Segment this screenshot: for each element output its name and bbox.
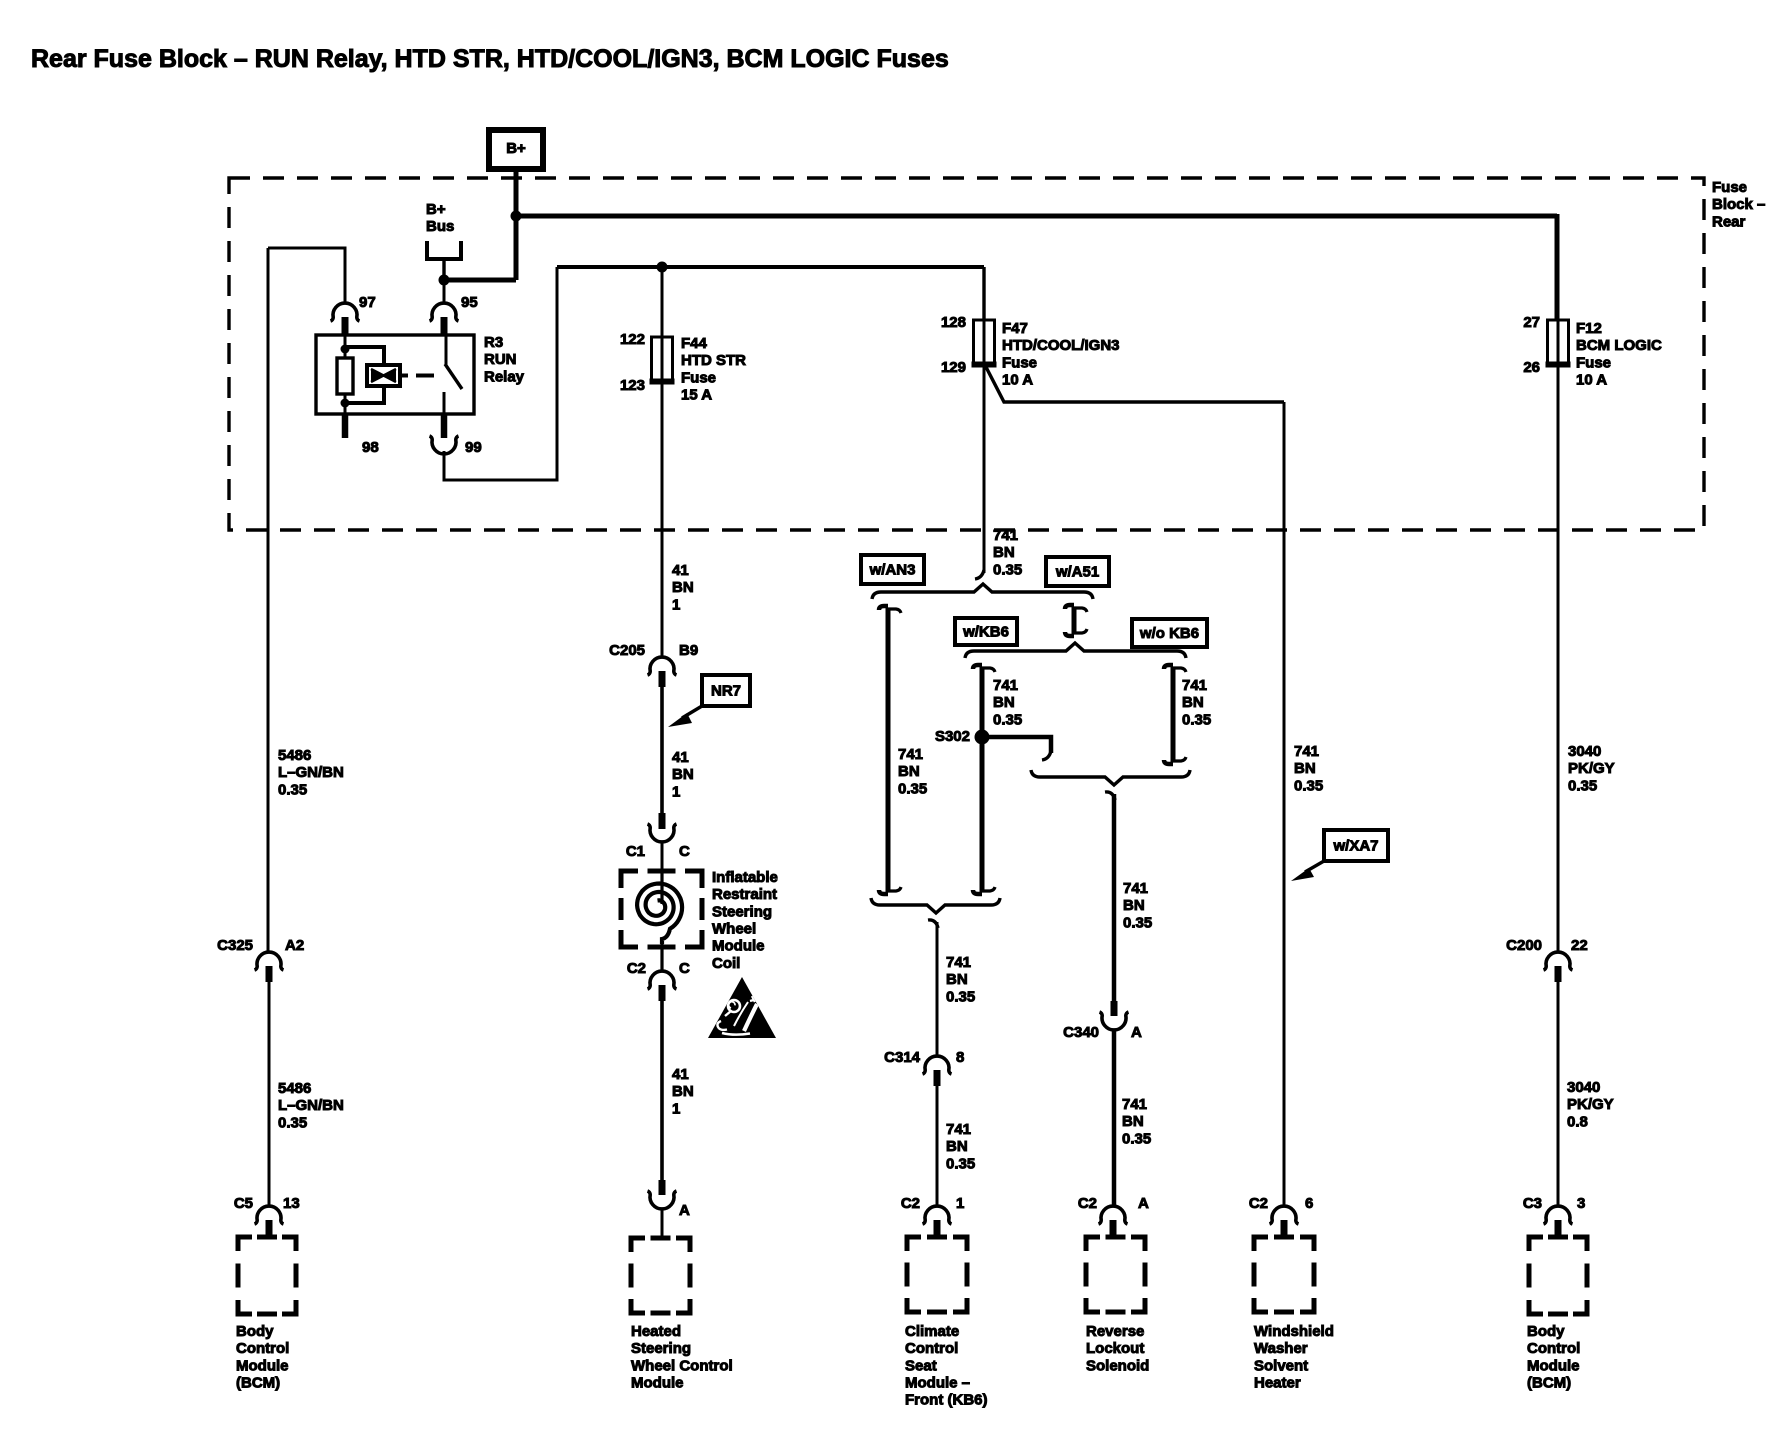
wire 741 from F47: [975, 366, 984, 579]
svg-text:BCM LOGIC: BCM LOGIC: [1576, 337, 1662, 354]
connector C314: [923, 1056, 952, 1086]
svg-text:Control: Control: [1527, 1340, 1580, 1357]
wire C1 to coil: [661, 841, 664, 871]
connector C340 labels: [1063, 1024, 1142, 1041]
relay pin 98 stub: [342, 414, 349, 438]
svg-text:Bus: Bus: [426, 218, 454, 235]
svg-text:BN: BN: [672, 766, 694, 783]
node bus junction: [439, 275, 450, 286]
svg-text:0.35: 0.35: [898, 780, 927, 797]
relay coil wire: [344, 335, 347, 414]
relay coil loop: [345, 347, 384, 403]
branch w/AN3: [879, 606, 901, 894]
wire F44 tap down: [661, 267, 664, 337]
svg-text:A: A: [679, 1202, 690, 1219]
connector A label: [679, 1202, 690, 1219]
svg-text:C5: C5: [234, 1195, 253, 1212]
svg-text:0.35: 0.35: [1568, 777, 1597, 794]
svg-text:Steering: Steering: [631, 1340, 691, 1357]
svg-text:Restraint: Restraint: [712, 886, 777, 903]
fuse F47: [972, 320, 997, 366]
pin 97 label: [359, 294, 376, 311]
svg-text:Relay: Relay: [484, 368, 525, 385]
svg-text:0.35: 0.35: [1122, 1130, 1151, 1147]
svg-text:B+: B+: [506, 140, 526, 157]
svg-text:Wheel: Wheel: [712, 921, 756, 938]
svg-text:C340: C340: [1063, 1024, 1099, 1041]
heated steering wheel module box: [631, 1238, 690, 1313]
svg-text:741: 741: [993, 527, 1018, 544]
svg-text:10 A: 10 A: [1002, 372, 1033, 389]
svg-text:1: 1: [672, 783, 680, 800]
svg-text:Solvent: Solvent: [1254, 1357, 1308, 1374]
svg-text:97: 97: [359, 294, 376, 311]
relay coil resistor: [337, 358, 353, 394]
wire 3040 lower label: [1567, 1079, 1614, 1130]
connector C1: [648, 813, 677, 842]
link w/A51: [1065, 605, 1087, 636]
node B+ junction: [511, 211, 522, 222]
pin 98 label: [362, 439, 379, 456]
svg-text:Module: Module: [712, 938, 765, 955]
svg-text:Steering: Steering: [712, 903, 772, 920]
wire 41 lower label: [672, 1066, 694, 1117]
svg-text:w/KB6: w/KB6: [962, 623, 1009, 640]
svg-text:741: 741: [898, 746, 923, 763]
svg-text:B+: B+: [426, 201, 446, 218]
svg-text:S302: S302: [935, 728, 970, 745]
node F44 tap: [657, 262, 668, 273]
svg-text:41: 41: [672, 749, 689, 766]
svg-text:1: 1: [956, 1195, 964, 1212]
svg-text:27: 27: [1523, 314, 1540, 331]
svg-text:HTD STR: HTD STR: [681, 352, 746, 369]
svg-text:A2: A2: [285, 937, 304, 954]
wire B+ main run: [516, 214, 1557, 219]
svg-text:Body: Body: [1527, 1323, 1565, 1340]
svg-text:C200: C200: [1506, 937, 1542, 954]
wire fuse feed run: [557, 265, 984, 269]
wire 5486 upper: [267, 248, 270, 952]
svg-text:0.35: 0.35: [278, 781, 307, 798]
svg-text:C1: C1: [626, 843, 645, 860]
pin 95 label: [461, 294, 478, 311]
wire F47 diagonal: [986, 367, 1284, 402]
svg-text:3: 3: [1577, 1195, 1585, 1212]
inflatable restraint coil box: [621, 871, 702, 947]
svg-text:BN: BN: [1122, 1113, 1144, 1130]
svg-text:BN: BN: [946, 971, 968, 988]
wire relay 99 to fuse feed: [444, 267, 557, 480]
svg-text:w/XA7: w/XA7: [1332, 837, 1378, 854]
svg-text:Fuse: Fuse: [1712, 179, 1747, 196]
svg-text:Inflatable: Inflatable: [712, 869, 778, 886]
wire 741 AN3 label: [898, 746, 927, 797]
relay dashed actuator link: [416, 374, 434, 378]
inflatable restraint coil label: [712, 869, 778, 972]
svg-text:128: 128: [941, 314, 966, 331]
svg-text:Rear: Rear: [1712, 213, 1746, 230]
connector C2 reverse: [1099, 1206, 1128, 1235]
svg-text:41: 41: [672, 1066, 689, 1083]
pin 26 label: [1523, 359, 1540, 376]
climate control seat module box: [907, 1237, 967, 1312]
svg-text:BN: BN: [1294, 760, 1316, 777]
pin 123 label: [620, 377, 645, 394]
fuse block rear label: [1712, 179, 1765, 230]
relay switch contact: [445, 335, 448, 365]
connector C5 labels: [234, 1195, 300, 1212]
splice S302 label: [935, 728, 970, 745]
wire 741 to climate: [928, 920, 938, 1057]
svg-text:0.8: 0.8: [1567, 1113, 1588, 1130]
svg-text:L–GN/BN: L–GN/BN: [278, 1097, 344, 1114]
svg-text:15 A: 15 A: [681, 387, 712, 404]
svg-text:w/o KB6: w/o KB6: [1139, 625, 1199, 642]
connector C2 climate: [923, 1206, 952, 1235]
relay R3 label: [484, 334, 525, 385]
svg-text:Lockout: Lockout: [1086, 1340, 1144, 1357]
svg-text:5486: 5486: [278, 747, 311, 764]
svg-text:PK/GY: PK/GY: [1568, 760, 1615, 777]
reverse lockout solenoid label: [1086, 1323, 1149, 1374]
option box w/AN3: [861, 555, 924, 584]
svg-text:0.35: 0.35: [1123, 914, 1152, 931]
svg-text:741: 741: [946, 1121, 971, 1138]
wire B+ run to F12: [1555, 214, 1560, 321]
svg-text:129: 129: [941, 359, 966, 376]
wire 741 windshield: [1283, 402, 1286, 1207]
climate control seat module label: [905, 1323, 988, 1409]
wire 41 lower: [660, 1001, 664, 1180]
svg-text:BN: BN: [946, 1138, 968, 1155]
body control module left box: [238, 1237, 296, 1314]
branch w/KB6: [973, 665, 995, 894]
svg-text:123: 123: [620, 377, 645, 394]
svg-text:122: 122: [620, 331, 645, 348]
svg-text:C2: C2: [1249, 1195, 1268, 1212]
svg-text:Fuse: Fuse: [1576, 354, 1611, 371]
svg-text:L–GN/BN: L–GN/BN: [278, 764, 344, 781]
wire bus to relay 95: [443, 280, 446, 304]
branch w/o KB6: [1164, 665, 1186, 764]
svg-text:C2: C2: [627, 960, 646, 977]
connector C325: [255, 952, 284, 982]
svg-text:F47: F47: [1002, 320, 1028, 337]
svg-text:BN: BN: [993, 694, 1015, 711]
pin 129 label: [941, 359, 966, 376]
svg-text:Body: Body: [236, 1323, 274, 1340]
svg-text:F44: F44: [681, 335, 708, 352]
svg-text:C3: C3: [1523, 1195, 1542, 1212]
connector C340: [1100, 1001, 1129, 1030]
svg-text:C: C: [679, 843, 690, 860]
svg-text:A: A: [1138, 1195, 1149, 1212]
connector C200: [1544, 952, 1573, 982]
svg-text:BN: BN: [672, 579, 694, 596]
body control module left label: [236, 1323, 289, 1392]
wire A to module: [661, 1208, 664, 1238]
B+ power feed box: [489, 130, 543, 169]
svg-text:741: 741: [1294, 743, 1319, 760]
connector C3 labels: [1523, 1195, 1586, 1212]
svg-text:C205: C205: [609, 642, 645, 659]
svg-text:Module: Module: [236, 1357, 289, 1374]
svg-text:BN: BN: [672, 1083, 694, 1100]
svg-text:Windshield: Windshield: [1254, 1323, 1334, 1340]
svg-text:B9: B9: [679, 642, 698, 659]
svg-text:41: 41: [672, 562, 689, 579]
wire 741 climate upper label: [946, 954, 975, 1005]
NR7 option box: [702, 675, 750, 706]
pin 99 label: [465, 439, 482, 456]
relay pin 97 connector: [331, 303, 360, 335]
fuse F12: [1546, 320, 1571, 366]
wire 741 climate lower: [936, 1086, 939, 1207]
pin 27 label: [1523, 314, 1540, 331]
body control module right box: [1529, 1237, 1587, 1314]
wire 741 to reverse: [1105, 792, 1115, 1001]
svg-text:1: 1: [672, 1100, 680, 1117]
svg-text:R3: R3: [484, 334, 503, 351]
wire S302 tap: [989, 737, 1051, 760]
option box w/A51: [1046, 557, 1109, 586]
svg-text:Seat: Seat: [905, 1357, 937, 1374]
wire junction link: [444, 278, 516, 283]
wire 3040 lower: [1557, 982, 1560, 1207]
svg-text:Heater: Heater: [1254, 1375, 1301, 1392]
svg-text:A: A: [1131, 1024, 1142, 1041]
svg-text:8: 8: [956, 1049, 964, 1066]
inflatable restraint coil spiral: [637, 871, 682, 971]
connector C2 climate labels: [901, 1195, 965, 1212]
B+ Bus symbol: [426, 201, 461, 259]
svg-text:0.35: 0.35: [993, 561, 1022, 578]
svg-text:PK/GY: PK/GY: [1567, 1096, 1614, 1113]
svg-text:BN: BN: [993, 544, 1015, 561]
relay node coil top: [341, 345, 350, 354]
svg-text:C325: C325: [217, 937, 253, 954]
connector C205 labels: [609, 642, 698, 659]
wire 741 windshield label: [1294, 743, 1323, 794]
wire 41 upper label: [672, 562, 694, 613]
windshield washer solvent heater box: [1254, 1237, 1314, 1312]
svg-text:Washer: Washer: [1254, 1340, 1308, 1357]
NR7 arrow: [668, 706, 702, 727]
wire 5486 upper label: [278, 747, 344, 798]
relay coil link: [400, 374, 408, 378]
svg-text:F12: F12: [1576, 320, 1602, 337]
connector C3: [1544, 1206, 1573, 1235]
svg-text:w/A51: w/A51: [1055, 563, 1099, 580]
svg-text:Control: Control: [236, 1340, 289, 1357]
svg-text:Wheel Control: Wheel Control: [631, 1357, 733, 1374]
fuse F44: [650, 337, 675, 383]
svg-text:Control: Control: [905, 1340, 958, 1357]
svg-text:0.35: 0.35: [1182, 711, 1211, 728]
svg-text:NR7: NR7: [711, 682, 741, 699]
w/XA7 arrow: [1291, 861, 1324, 881]
svg-text:6: 6: [1305, 1195, 1313, 1212]
sir warning triangle: [708, 977, 776, 1038]
svg-text:741: 741: [993, 677, 1018, 694]
relay node coil bottom: [341, 399, 350, 408]
svg-text:Fuse: Fuse: [681, 369, 716, 386]
wire 41 fuse to C205: [661, 383, 664, 658]
svg-text:10 A: 10 A: [1576, 372, 1607, 389]
connector C2 reverse labels: [1078, 1195, 1149, 1212]
wire B+ down: [514, 169, 519, 280]
svg-text:w/AN3: w/AN3: [869, 561, 916, 578]
relay switch lower wire: [443, 392, 446, 414]
svg-text:0.35: 0.35: [993, 711, 1022, 728]
svg-text:Heated: Heated: [631, 1323, 681, 1340]
svg-text:95: 95: [461, 294, 478, 311]
svg-text:Reverse: Reverse: [1086, 1323, 1144, 1340]
merge brace reverse: [1031, 770, 1190, 785]
wire 741 w/o KB6 label: [1182, 677, 1211, 728]
windshield washer solvent heater label: [1254, 1323, 1334, 1392]
svg-text:741: 741: [946, 954, 971, 971]
connector C325 labels: [217, 937, 304, 954]
wire 41 mid: [660, 687, 664, 813]
wire 741 KB6 label: [993, 677, 1022, 728]
connector C2 windshield labels: [1249, 1195, 1314, 1212]
connector A heated: [648, 1180, 677, 1209]
relay R3 box: [316, 335, 474, 414]
pin 128 label: [941, 314, 966, 331]
wire 741 reverse lower: [1112, 1029, 1117, 1207]
splice S302: [975, 730, 990, 745]
relay pin 95 connector: [430, 303, 459, 335]
connector C5: [255, 1206, 284, 1235]
connector C200 labels: [1506, 937, 1588, 954]
option box w/KB6: [955, 618, 1017, 645]
pin 122 label: [620, 331, 645, 348]
wire 3040 upper label: [1568, 743, 1615, 794]
svg-text:Coil: Coil: [712, 955, 740, 972]
svg-text:3040: 3040: [1567, 1079, 1600, 1096]
option brace AN3/A51: [872, 584, 1093, 599]
option brace KB6: [965, 643, 1186, 658]
wire 741 climate lower label: [946, 1121, 975, 1172]
svg-text:Module –: Module –: [905, 1375, 970, 1392]
svg-text:Solenoid: Solenoid: [1086, 1357, 1149, 1374]
svg-text:13: 13: [283, 1195, 300, 1212]
connector C1 labels: [626, 843, 690, 860]
svg-text:22: 22: [1571, 937, 1588, 954]
svg-text:BN: BN: [1123, 897, 1145, 914]
title: [31, 45, 949, 73]
svg-text:5486: 5486: [278, 1080, 311, 1097]
svg-text:0.35: 0.35: [946, 1155, 975, 1172]
connector C2 windshield: [1270, 1206, 1299, 1235]
svg-text:BN: BN: [1182, 694, 1204, 711]
merge brace climate: [871, 898, 1000, 913]
svg-text:Fuse: Fuse: [1002, 354, 1037, 371]
svg-text:1: 1: [672, 596, 680, 613]
svg-text:Block –: Block –: [1712, 196, 1765, 213]
svg-text:0.35: 0.35: [1294, 777, 1323, 794]
svg-text:741: 741: [1122, 1096, 1147, 1113]
svg-text:(BCM): (BCM): [1527, 1375, 1571, 1392]
svg-text:BN: BN: [898, 763, 920, 780]
option box w/o KB6: [1132, 619, 1207, 647]
svg-text:741: 741: [1182, 677, 1207, 694]
option box w/XA7: [1324, 830, 1388, 861]
wire 5486 lower label: [278, 1080, 344, 1131]
svg-text:0.35: 0.35: [946, 988, 975, 1005]
svg-text:C: C: [679, 960, 690, 977]
svg-text:Module: Module: [1527, 1357, 1580, 1374]
fuse F47 label: [1002, 320, 1120, 389]
wire 3040 upper: [1557, 366, 1560, 952]
fuse F44 label: [681, 335, 746, 404]
relay coil X-box: [367, 365, 400, 386]
svg-text:(BCM): (BCM): [236, 1375, 280, 1392]
svg-text:RUN: RUN: [484, 351, 517, 368]
svg-text:98: 98: [362, 439, 379, 456]
wire F47 drop: [982, 267, 985, 321]
svg-text:3040: 3040: [1568, 743, 1601, 760]
svg-text:HTD/COOL/IGN3: HTD/COOL/IGN3: [1002, 337, 1120, 354]
connector C2 coil labels: [627, 960, 690, 977]
wire 5486 lower: [268, 982, 271, 1207]
svg-text:741: 741: [1123, 880, 1148, 897]
svg-text:0.35: 0.35: [278, 1114, 307, 1131]
svg-text:C2: C2: [901, 1195, 920, 1212]
wire relay 97 loop top: [268, 248, 345, 304]
heated steering wheel module label: [631, 1323, 733, 1392]
svg-text:Climate: Climate: [905, 1323, 959, 1340]
svg-text:99: 99: [465, 439, 482, 456]
relay switch blade: [445, 364, 462, 389]
svg-text:26: 26: [1523, 359, 1540, 376]
svg-text:Module: Module: [631, 1375, 684, 1392]
connector C2 coil: [648, 971, 677, 1001]
svg-text:C314: C314: [884, 1049, 921, 1066]
fuse block rear boundary: [229, 178, 1704, 530]
connector C314 labels: [884, 1049, 964, 1066]
wire 741 F47 label: [993, 527, 1022, 578]
svg-text:C2: C2: [1078, 1195, 1097, 1212]
relay pin 99 connector: [430, 414, 459, 454]
svg-text:Front (KB6): Front (KB6): [905, 1392, 988, 1409]
svg-text:Rear Fuse Block – RUN Relay, H: Rear Fuse Block – RUN Relay, HTD STR, HT…: [31, 45, 949, 73]
wire 741 reverse lower label: [1122, 1096, 1151, 1147]
wire 41 mid label: [672, 749, 694, 800]
reverse lockout solenoid box: [1086, 1237, 1145, 1312]
fuse F12 label: [1576, 320, 1662, 389]
wire 741 reverse label: [1123, 880, 1152, 931]
body control module right label: [1527, 1323, 1580, 1392]
wire bus to junction: [442, 259, 445, 283]
connector C205: [648, 657, 677, 687]
